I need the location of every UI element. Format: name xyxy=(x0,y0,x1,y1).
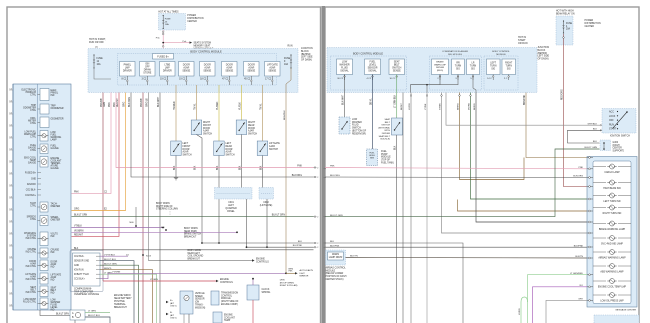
internal bus wires inside band xyxy=(411,75,441,93)
BCM panel lamp driver output xyxy=(120,62,136,77)
svg-text:PNK: PNK xyxy=(74,191,79,193)
message center pin 5 stub xyxy=(587,210,593,212)
svg-text:TRANS-: TRANS- xyxy=(195,303,204,306)
svg-text:GAUGE: GAUGE xyxy=(51,167,60,170)
svg-text:HOT AT ALL TIMES: HOT AT ALL TIMES xyxy=(158,10,179,13)
wire violet VT/BLK cluster to park brake switch xyxy=(72,227,164,229)
svg-text:SENSOR: SENSOR xyxy=(195,299,205,301)
svg-text:FUEL TANK): FUEL TANK) xyxy=(381,161,394,164)
svg-text:SUPPORT): SUPPORT) xyxy=(613,151,625,153)
svg-text:AJAR: AJAR xyxy=(269,66,275,69)
right rear door ajar switch xyxy=(236,120,247,135)
svg-text:SEATS SYSTEM: SEATS SYSTEM xyxy=(194,42,212,45)
ground wire liftgate switch through C302 xyxy=(263,156,268,248)
cluster pin number xyxy=(9,293,13,295)
svg-text:(LIFTGATE): (LIFTGATE) xyxy=(260,204,273,207)
svg-text:BODY CONTROL MODULE: BODY CONTROL MODULE xyxy=(353,53,383,56)
svg-text:IGN RUN: IGN RUN xyxy=(74,270,84,272)
svg-text:(TOP OF: (TOP OF xyxy=(381,160,391,162)
svg-text:BRN/PNK: BRN/PNK xyxy=(284,110,286,120)
svg-text:(RED): (RED) xyxy=(437,70,443,72)
svg-text:LTBE: LTBE xyxy=(164,65,170,67)
svg-text:18 C2: 18 C2 xyxy=(200,79,207,81)
svg-text:(ON: (ON xyxy=(195,302,199,304)
svg-text:DISTRIBUTION: DISTRIBUTION xyxy=(585,23,602,25)
compass wire VT/TN BLK xyxy=(100,255,128,257)
svg-text:LT GRN/RED: LT GRN/RED xyxy=(570,273,583,275)
svg-text:OMETER: OMETER xyxy=(51,206,61,208)
message center pin 11 stub xyxy=(587,221,593,223)
svg-text:FLUID: FLUID xyxy=(341,67,348,69)
BCM pin 19 C2 stub xyxy=(166,76,168,85)
svg-text:C2: C2 xyxy=(10,280,12,282)
svg-text:TN/RED: TN/RED xyxy=(174,101,176,110)
auto day night mirror callout xyxy=(285,272,287,274)
cluster pin number xyxy=(9,209,13,211)
svg-text:BELT: BELT xyxy=(394,64,400,66)
svg-text:SEN: SEN xyxy=(370,158,375,160)
cluster pin number xyxy=(9,173,13,175)
svg-text:LIFTGATE: LIFTGATE xyxy=(269,142,280,145)
svg-text:LMP: LMP xyxy=(165,67,170,69)
svg-text:OR RUN: OR RUN xyxy=(518,42,528,45)
svg-text:BLOCK: BLOCK xyxy=(538,50,546,52)
svg-text:RED/WT: RED/WT xyxy=(74,234,84,236)
svg-text:SIG: SIG xyxy=(456,68,460,70)
message center pin 8 stub xyxy=(587,168,593,170)
cluster pin number xyxy=(9,233,13,235)
svg-text:BRAKE: BRAKE xyxy=(436,61,444,64)
svg-text:19 C2: 19 C2 xyxy=(179,79,186,81)
svg-text:BK/RD: BK/RD xyxy=(474,103,476,110)
svg-text:2: 2 xyxy=(317,247,318,249)
staircase wire dark green to message center xyxy=(471,93,588,200)
svg-text:RED/ORG: RED/ORG xyxy=(562,89,564,100)
body control module band right page xyxy=(327,48,537,93)
svg-text:BRAKE WARNING LAMP: BRAKE WARNING LAMP xyxy=(599,228,626,231)
svg-text:LT GRN: LT GRN xyxy=(150,279,158,281)
svg-text:PNK: PNK xyxy=(330,166,335,168)
svg-text:G303: G303 xyxy=(613,142,619,144)
svg-text:JUNCTION: JUNCTION xyxy=(301,48,313,50)
svg-text:SENSE: SENSE xyxy=(393,70,401,72)
svg-text:AIRBAG CONTROL: AIRBAG CONTROL xyxy=(326,267,347,270)
svg-text:DOOR: DOOR xyxy=(183,149,190,151)
gray black wire from flasher to ignition switch xyxy=(446,93,602,126)
junction block fuse 3 box right page xyxy=(520,52,534,82)
svg-text:BLK/LT GRN: BLK/LT GRN xyxy=(330,215,343,217)
svg-text:BLK/ORG: BLK/ORG xyxy=(129,97,131,107)
svg-text:LEFT TURN IND: LEFT TURN IND xyxy=(603,201,620,203)
cluster pin number xyxy=(9,197,13,199)
ground G-left-front xyxy=(174,177,178,179)
wire yellow to left rear door ajar switch xyxy=(218,85,220,141)
svg-text:RIGHT TURN IND: RIGHT TURN IND xyxy=(603,213,622,215)
svg-text:2: 2 xyxy=(317,167,318,169)
svg-text:CTRL: CTRL xyxy=(30,150,37,152)
svg-text:POSITIVE: POSITIVE xyxy=(114,301,125,303)
svg-text:FUEL: FUEL xyxy=(381,151,388,153)
cluster pin number xyxy=(9,257,13,259)
svg-text:PNK: PNK xyxy=(109,102,111,107)
svg-text:BREAKOUT: BREAKOUT xyxy=(188,258,201,261)
svg-text:LR: LR xyxy=(472,63,475,65)
svg-text:SWITCH: SWITCH xyxy=(226,155,235,157)
page edge connectors for inter-page wires xyxy=(314,167,317,169)
svg-text:RUN: RUN xyxy=(609,124,614,126)
cluster pin number xyxy=(9,185,13,187)
svg-text:ENGINE: ENGINE xyxy=(220,279,229,281)
right page pin 3 stub xyxy=(457,75,459,81)
message center pin 9 stub xyxy=(587,246,593,248)
svg-text:47 C2: 47 C2 xyxy=(222,79,229,81)
svg-text:MISSION): MISSION) xyxy=(195,307,206,309)
svg-text:BRAKE SWITCH: BRAKE SWITCH xyxy=(184,233,202,236)
svg-text:YL/BLK: YL/BLK xyxy=(240,102,242,110)
svg-text:VEHICLE: VEHICLE xyxy=(195,293,205,295)
svg-text:IND: IND xyxy=(51,267,55,269)
wire from VSS down xyxy=(183,314,185,323)
svg-text:30 C2: 30 C2 xyxy=(337,78,344,80)
svg-text:DRN: DRN xyxy=(280,280,285,282)
clock spring box xyxy=(247,285,259,300)
svg-text:FLUID: FLUID xyxy=(352,125,359,127)
svg-text:CONTROLS: CONTROLS xyxy=(256,261,269,263)
svg-text:DOOR: DOOR xyxy=(226,65,233,67)
cluster pin number xyxy=(9,137,13,139)
svg-text:DOOR: DOOR xyxy=(248,65,255,67)
svg-text:C2: C2 xyxy=(10,136,12,138)
svg-text:GRY/BLK: GRY/BLK xyxy=(588,123,598,125)
svg-text:(A/T: (A/T xyxy=(170,314,175,317)
message center lamp LOW OIL PRESS LMP xyxy=(593,294,606,296)
connector C301 left quarter panel xyxy=(215,188,253,200)
svg-text:19 C2: 19 C2 xyxy=(160,79,167,81)
engine controls arrow upper xyxy=(252,259,255,261)
svg-text:ENGINE: ENGINE xyxy=(256,259,265,261)
svg-text:C2: C2 xyxy=(10,256,12,258)
svg-text:SWITCH: SWITCH xyxy=(248,134,257,136)
svg-text:ABS WARNING LAMP: ABS WARNING LAMP xyxy=(600,270,624,273)
right page pin 14 C stub xyxy=(492,75,494,81)
svg-text:WITH: WITH xyxy=(384,130,390,132)
combination flasher DRL module box xyxy=(430,56,482,90)
fuse F23 10A xyxy=(162,16,164,29)
svg-text:BODY WIRIN: BODY WIRIN xyxy=(188,250,202,252)
svg-text:BK/WT: BK/WT xyxy=(401,102,403,110)
BCM liftgate lamp driver output xyxy=(160,62,176,77)
message center lamp CARGO LAMP xyxy=(593,166,606,168)
svg-text:C2: C2 xyxy=(10,112,12,114)
svg-text:SENSOR GND: SENSOR GND xyxy=(74,261,90,263)
page frame right sheet xyxy=(325,7,639,323)
svg-text:14 C: 14 C xyxy=(487,78,492,80)
wire pink branch to seats system xyxy=(163,42,189,44)
svg-text:FUSED B+: FUSED B+ xyxy=(157,56,169,58)
compass wire VT/GRN long to mirror splice xyxy=(100,273,286,278)
svg-text:MODULE: MODULE xyxy=(221,298,231,300)
svg-text:AJAR: AJAR xyxy=(204,66,210,69)
BCM pin 3 C2 stub xyxy=(146,76,148,85)
svg-text:VT/GRN: VT/GRN xyxy=(112,272,121,274)
svg-text:FUSE: FUSE xyxy=(566,23,573,25)
svg-text:SIG: SIG xyxy=(491,68,495,70)
svg-text:10A: 10A xyxy=(165,23,169,26)
svg-text:ONLY): ONLY) xyxy=(170,318,177,320)
wire tan to right front door ajar switch xyxy=(196,85,198,120)
svg-text:SEAT: SEAT xyxy=(394,61,400,64)
flasher brake warn lamp driver output xyxy=(432,59,449,75)
svg-text:NEAR LEFT: NEAR LEFT xyxy=(188,252,201,255)
svg-text:BLK/LT GRN: BLK/LT GRN xyxy=(56,314,69,316)
svg-text:(BEHIND: (BEHIND xyxy=(301,54,311,56)
BCM right turn signal input xyxy=(502,59,516,75)
svg-text:GY/BK: GY/BK xyxy=(440,103,442,110)
cluster ground wire bottom xyxy=(40,310,75,323)
svg-text:ENGINE COOL TEMP LMP: ENGINE COOL TEMP LMP xyxy=(598,286,627,288)
svg-text:WASHER: WASHER xyxy=(352,121,362,124)
svg-text:SENSE: SENSE xyxy=(268,70,276,72)
page frame left sheet xyxy=(7,7,321,323)
body control module 2 box right page xyxy=(484,56,518,90)
message center pin 1 stub xyxy=(587,157,593,159)
svg-text:RED/WT: RED/WT xyxy=(117,97,119,107)
cluster pin number xyxy=(9,221,13,223)
svg-text:IND CTRL: IND CTRL xyxy=(26,279,37,281)
svg-text:BUCKLE): BUCKLE) xyxy=(381,139,391,141)
seat belt switch ground wire xyxy=(396,135,398,323)
svg-text:BREAKOUT: BREAKOUT xyxy=(184,236,197,239)
fuse box F23 power distribution center xyxy=(159,14,186,31)
svg-text:LEFT: LEFT xyxy=(228,205,234,207)
svg-text:CENTER: CENTER xyxy=(187,21,197,23)
svg-text:BLK/LT GRN: BLK/LT GRN xyxy=(272,215,286,217)
wire black-tan from airbag module to message center xyxy=(346,257,588,260)
svg-text:DOOR: DOOR xyxy=(226,149,233,151)
svg-text:AJAR: AJAR xyxy=(183,151,189,154)
ground wire left front door switch xyxy=(175,156,177,178)
message center pin 4 stub xyxy=(587,186,593,188)
svg-text:BLK: BLK xyxy=(298,241,303,243)
svg-text:ODOMETER: ODOMETER xyxy=(51,108,64,110)
message center lamp AIRBAG WARNING LAMP xyxy=(593,251,606,253)
svg-text:BLK/PNK: BLK/PNK xyxy=(293,245,303,247)
svg-text:BLK/PNK: BLK/PNK xyxy=(330,245,340,247)
engine coolant temperature sensor box xyxy=(213,312,222,323)
svg-text:POWER: POWER xyxy=(187,15,196,17)
svg-text:NEAR BATTERY: NEAR BATTERY xyxy=(114,297,132,300)
svg-text:CENTER STACK): CENTER STACK) xyxy=(326,278,344,281)
svg-text:STORE: STORE xyxy=(143,72,151,74)
svg-text:CO2 BLK-: CO2 BLK- xyxy=(74,256,85,258)
svg-text:RIGHT: RIGHT xyxy=(505,63,513,65)
svg-text:SWITCH: SWITCH xyxy=(183,155,192,157)
wire red RED/WT BCM to cluster ignition feed xyxy=(72,93,120,237)
body control module box (left page) xyxy=(118,54,277,86)
svg-text:COMBINATION FLASHER: COMBINATION FLASHER xyxy=(442,50,468,53)
svg-text:SIG: SIG xyxy=(471,68,475,70)
svg-text:IND CTRL: IND CTRL xyxy=(26,292,37,294)
svg-text:PNK: PNK xyxy=(297,166,302,168)
cluster pin number xyxy=(9,281,13,283)
wire from fuse 12 to BCM internal xyxy=(94,68,111,79)
svg-text:REAR: REAR xyxy=(226,145,233,148)
svg-text:AUTO-DAY/N: AUTO-DAY/N xyxy=(300,269,314,272)
instrument cluster inner divider xyxy=(37,84,39,310)
ignition switch contact arm xyxy=(613,112,627,128)
svg-text:SPEED: SPEED xyxy=(195,296,203,298)
wire LT GRN from connector xyxy=(85,312,110,314)
svg-text:START: START xyxy=(609,128,617,131)
wire light green LT GRN/RED from bottom to ABS lamp xyxy=(528,275,588,323)
svg-text:SIG: SIG xyxy=(507,68,511,70)
svg-text:MEMORY SEAT: MEMORY SEAT xyxy=(194,44,211,47)
svg-text:ENGINE WIRIN: ENGINE WIRIN xyxy=(114,295,131,297)
svg-text:RIGHT: RIGHT xyxy=(248,122,256,124)
svg-text:LEFT SIDE: LEFT SIDE xyxy=(538,56,550,58)
svg-text:(2): (2) xyxy=(95,47,98,49)
svg-text:BLK/TN: BLK/TN xyxy=(575,256,583,258)
svg-text:SWITCH: SWITCH xyxy=(392,67,402,69)
svg-text:LOW: LOW xyxy=(352,119,358,121)
svg-text:10A: 10A xyxy=(97,63,102,66)
message center lamp BRAKE WARNING LAMP xyxy=(593,223,606,225)
svg-text:C2: C2 xyxy=(10,232,12,234)
left rear door ajar switch xyxy=(214,141,225,156)
svg-text:10 C2: 10 C2 xyxy=(389,78,396,80)
svg-text:FRONT: FRONT xyxy=(183,146,192,148)
svg-text:IND: IND xyxy=(51,95,55,97)
svg-text:LOCK: LOCK xyxy=(609,116,616,118)
svg-text:ACC: ACC xyxy=(609,111,614,114)
svg-text:IN/BATT TSLR: IN/BATT TSLR xyxy=(74,273,89,276)
svg-text:STEERING COLUMN: STEERING COLUMN xyxy=(156,209,178,211)
svg-text:GND: GND xyxy=(31,178,36,180)
svg-text:OVERHEAD CONSOLE: OVERHEAD CONSOLE xyxy=(74,293,100,296)
svg-text:CONTROLS: CONTROLS xyxy=(220,282,233,284)
cluster pin number xyxy=(9,125,13,127)
svg-text:VIO: VIO xyxy=(579,285,583,287)
ignition switch box xyxy=(602,109,636,134)
compass mini-trip computer box xyxy=(73,253,101,286)
wire BLK/LT BLU from connector xyxy=(85,317,110,323)
fuel level sensor xyxy=(367,149,378,166)
svg-text:WARN LMP: WARN LMP xyxy=(434,63,446,66)
svg-text:DRAW: DRAW xyxy=(144,68,152,71)
svg-text:IND CTRL: IND CTRL xyxy=(26,252,37,254)
svg-text:SENSE: SENSE xyxy=(225,70,233,72)
message center lamp ENGINE COOL TEMP LMP xyxy=(593,280,606,282)
svg-text:SEAT BELT: SEAT BELT xyxy=(379,135,391,138)
svg-text:CTRL: CTRL xyxy=(30,206,37,208)
svg-text:CTRL: CTRL xyxy=(30,123,37,125)
svg-text:MODULE: MODULE xyxy=(496,54,506,56)
long vertical wire right page v3 xyxy=(426,93,428,323)
wire black to low washer fluid switch xyxy=(344,75,346,118)
wire yellow to right rear door ajar switch xyxy=(241,85,243,120)
svg-text:OFF: OFF xyxy=(145,66,150,68)
svg-text:BODY WIRIN: BODY WIRIN xyxy=(184,228,198,230)
BCM pin 18 C2 stub xyxy=(206,76,208,85)
wire dark green BLK/LT GRN continues right page to ground loop xyxy=(325,149,600,217)
svg-text:LMP: LMP xyxy=(125,67,130,69)
svg-text:DRIVER: DRIVER xyxy=(163,70,172,72)
svg-text:CENTER: CENTER xyxy=(613,148,623,150)
long wire black BLK/PNK to page edge xyxy=(247,246,314,248)
svg-text:BLK/ORG: BLK/ORG xyxy=(573,176,583,178)
BCM door ajar sense input 2 xyxy=(200,62,216,77)
svg-text:C2: C2 xyxy=(10,100,12,102)
svg-text:(DASH: (DASH xyxy=(613,144,620,147)
svg-text:LEFT: LEFT xyxy=(183,143,189,145)
svg-text:CTRL: CTRL xyxy=(30,219,37,221)
svg-text:ENGINE: ENGINE xyxy=(224,315,233,317)
svg-text:C301: C301 xyxy=(228,202,234,204)
svg-text:COMPASS/MINI-: COMPASS/MINI- xyxy=(74,288,92,291)
svg-text:SENSOR: SENSOR xyxy=(368,67,378,69)
svg-text:GRN: GRN xyxy=(104,102,106,107)
message center lamp ABS WARNING LAMP xyxy=(593,265,606,267)
wire black BLK/ORG continues right page xyxy=(325,176,587,179)
wire pink PNK BCM to cluster fused B+ xyxy=(72,93,112,194)
svg-text:8 C2: 8 C2 xyxy=(121,79,127,81)
svg-text:SWITCH: SWITCH xyxy=(381,125,390,127)
svg-text:LG/RD: LG/RD xyxy=(519,308,521,315)
svg-text:AJAR: AJAR xyxy=(248,66,254,69)
small connector box bottom left xyxy=(70,310,85,320)
wire black from left page turning down at 463 xyxy=(325,243,463,323)
wire violet VIO/BRN cluster xyxy=(72,231,238,233)
svg-text:PANEL: PANEL xyxy=(124,64,132,67)
svg-text:SEAT: SEAT xyxy=(384,118,390,121)
svg-text:MESSAGE CENTER: MESSAGE CENTER xyxy=(616,309,637,312)
svg-text:AJAR: AJAR xyxy=(203,130,209,133)
svg-text:IND: IND xyxy=(51,236,55,238)
liftgate ajar switch xyxy=(257,141,268,156)
svg-text:JUNCTION: JUNCTION xyxy=(538,47,550,49)
svg-text:WASHER: WASHER xyxy=(339,63,349,66)
svg-text:VT/BK: VT/BK xyxy=(425,103,427,110)
wire blue-black to fuel level sensor xyxy=(372,75,374,150)
svg-text:C2: C2 xyxy=(10,208,12,210)
fuse F12 junction block left xyxy=(93,55,95,68)
svg-text:SENSE: SENSE xyxy=(182,70,190,72)
svg-text:DOOR: DOOR xyxy=(203,128,210,130)
svg-text:FUSE: FUSE xyxy=(165,19,171,21)
svg-text:C302: C302 xyxy=(263,202,269,204)
svg-text:BLK/LT GRN: BLK/LT GRN xyxy=(74,215,88,217)
cluster pin number xyxy=(9,245,13,247)
svg-text:IND CTRL: IND CTRL xyxy=(26,266,37,268)
svg-text:C2: C2 xyxy=(10,148,12,150)
message center pin 6 stub xyxy=(587,274,593,276)
svg-text:BLK/PNK: BLK/PNK xyxy=(574,245,584,247)
BCM left turn signal input xyxy=(487,59,501,75)
svg-text:FUSE: FUSE xyxy=(284,58,291,60)
svg-text:BREAKOUT: BREAKOUT xyxy=(114,306,127,309)
svg-text:BLK/WHT: BLK/WHT xyxy=(158,96,160,107)
long wire black BLK/ORG across left page xyxy=(131,93,314,178)
svg-text:CLOCK: CLOCK xyxy=(262,289,270,291)
svg-text:IND: IND xyxy=(51,293,55,295)
svg-text:RESERVOIR): RESERVOIR) xyxy=(352,133,366,135)
svg-text:MODULE: MODULE xyxy=(381,157,391,159)
svg-text:C2: C2 xyxy=(10,88,12,90)
compass wire LT GRN xyxy=(100,274,157,323)
svg-text:4 C2: 4 C2 xyxy=(366,78,371,80)
svg-text:TURN: TURN xyxy=(470,65,477,67)
staircase wire gray to message center gray-black row xyxy=(442,93,588,234)
